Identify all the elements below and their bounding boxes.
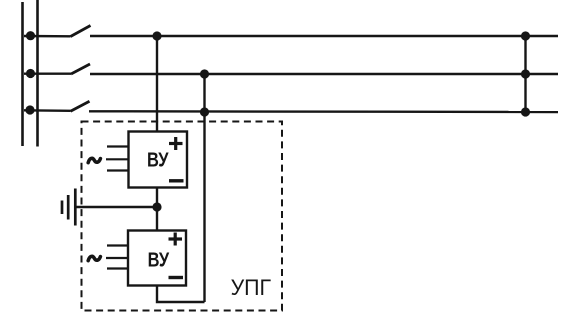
rectifier U2 minus terminal [169,276,184,279]
rectifier U1 body [129,132,188,188]
rectifier U2 ac tilde symbol [88,256,100,260]
node feeder1 to tie [521,31,530,40]
wire ground lead [76,206,158,208]
rectifier U1 minus terminal [169,179,184,182]
node feeder1 bus [26,31,35,40]
node feeder3 to V2 [200,107,209,116]
svg-text:ВУ: ВУ [148,249,170,271]
rectifier U2 plus terminal [169,233,183,246]
wire V1 feeder1 to rectifier U1 plus [156,36,158,132]
wire U1 minus to midpoint [156,188,158,231]
wire V2 feeders to rectifier U2 minus [203,74,205,302]
svg-text:ВУ: ВУ [147,149,169,171]
svg-text:УПГ: УПГ [231,275,272,300]
wire tie right end [524,36,526,112]
wire feeder1 left [24,35,71,38]
wire feeder2 left [24,72,71,74]
node feeder3 to tie [521,107,530,116]
rectifier U2 body [128,231,186,286]
node feeder2 to V2 [200,69,209,78]
node midpoint [152,202,161,211]
node feeder3 bus [25,105,34,114]
wire feeder3 right [89,110,558,113]
node feeder1 to V1 [152,31,161,40]
bus bar left [21,2,24,146]
rectifier U1 plus terminal [169,137,183,150]
wire feeder3 left [24,109,71,112]
disconnector QS2 blade [71,64,90,74]
rectifier U1 ac input lines [106,147,129,171]
enclosure UPG dashed box [82,122,283,311]
wire U2 minus bottom U-link [157,286,205,303]
disconnector QS1 blade [71,26,91,37]
ground symbol [62,189,75,226]
wire feeder1 right [90,35,558,37]
node feeder2 to tie [521,69,530,78]
rectifier U1 ac tilde symbol [88,158,100,162]
disconnector QS3 blade [71,101,90,111]
node feeder2 bus [26,69,35,78]
rectifier U2 ac input lines [106,246,128,269]
wire feeder2 right [90,73,558,75]
bus bar right [36,0,39,147]
